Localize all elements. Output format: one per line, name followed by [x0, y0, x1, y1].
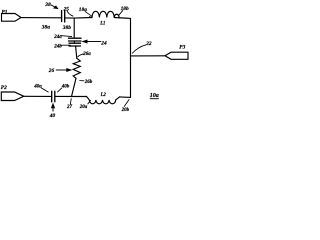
svg-text:L1: L1 [99, 21, 105, 26]
svg-text:40b: 40b [61, 85, 70, 90]
svg-text:24a: 24a [53, 35, 62, 40]
svg-text:26a: 26a [82, 52, 91, 57]
svg-text:18b: 18b [121, 6, 129, 12]
svg-text:40a: 40a [33, 85, 42, 90]
svg-text:P2: P2 [1, 85, 7, 91]
svg-text:18a: 18a [79, 7, 87, 13]
svg-text:38b: 38b [62, 25, 71, 31]
svg-text:24: 24 [100, 41, 107, 47]
svg-text:P1: P1 [2, 10, 8, 16]
svg-text:25: 25 [63, 7, 70, 13]
svg-text:26: 26 [48, 68, 55, 74]
svg-text:38: 38 [44, 2, 51, 8]
svg-text:P3: P3 [179, 44, 185, 50]
svg-text:20b: 20b [121, 108, 130, 113]
svg-text:L2: L2 [100, 93, 107, 98]
svg-text:24b: 24b [53, 45, 62, 50]
svg-text:40: 40 [49, 113, 56, 119]
svg-text:22: 22 [145, 41, 152, 47]
svg-text:38a: 38a [41, 24, 50, 30]
svg-text:27: 27 [66, 105, 73, 110]
svg-text:20a: 20a [79, 105, 88, 110]
svg-text:26b: 26b [84, 80, 93, 85]
